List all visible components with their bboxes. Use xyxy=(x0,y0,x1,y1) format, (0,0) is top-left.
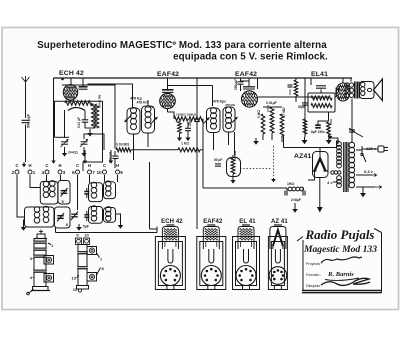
socket diagram AZ 41 inner wiring box xyxy=(271,242,284,286)
svg-text:EAF42: EAF42 xyxy=(203,219,223,225)
socket diagram EL 41 pin stubs xyxy=(242,285,244,290)
svg-text:C: C xyxy=(76,163,79,168)
speaker cone xyxy=(374,79,383,101)
ground under assembly 1 xyxy=(24,220,25,224)
osc coil box B1 xyxy=(104,182,116,199)
drawing 2 top lugs xyxy=(76,238,82,245)
antenna coil row2 loops A xyxy=(34,207,40,213)
svg-text:5 MΩ: 5 MΩ xyxy=(257,110,261,118)
IF T4 trimmer left xyxy=(204,118,210,124)
drawing 2 body xyxy=(78,245,87,286)
wire bottom chassis bus xyxy=(56,232,158,234)
socket diagram EAF42 base circle xyxy=(201,266,221,286)
socket diagram EL 41 base circle xyxy=(236,266,256,286)
wire terminal 2 down xyxy=(17,175,25,217)
capacitor EL41 input side xyxy=(335,88,337,93)
svg-text:C: C xyxy=(45,163,48,168)
socket diagram EL 41 legs xyxy=(244,249,249,263)
wire B+ rail top xyxy=(54,77,353,79)
socket diagram AZ 41 outer box xyxy=(268,237,287,290)
variable capacitor VC2 xyxy=(81,141,88,143)
socket diagram EAF42 pin stubs xyxy=(207,285,209,290)
resistor 4.7M vertical xyxy=(280,114,284,136)
svg-text:ECH 42: ECH 42 xyxy=(59,70,84,77)
resistor ECH42 bias vertical xyxy=(95,104,99,128)
svg-text:478 Kρ: 478 Kρ xyxy=(130,97,143,101)
antenna coil box row2 xyxy=(25,207,55,227)
capacitor 250pF top xyxy=(240,78,242,81)
coupling cap to EL41 xyxy=(294,80,298,96)
resistor 150ohm cathode xyxy=(303,119,307,134)
svg-text:0.01 μF: 0.01 μF xyxy=(77,117,81,128)
grid cap EAF42 first xyxy=(162,89,174,91)
trimmer capacitor row1 xyxy=(61,190,68,192)
heater 6.3v tap xyxy=(356,174,372,176)
svg-text:4.7 MΩ: 4.7 MΩ xyxy=(282,107,286,118)
osc coil B1 loops xyxy=(106,181,111,186)
antenna coil row2 loops B xyxy=(43,206,49,212)
wires detector xyxy=(263,106,282,108)
trimmer capacitor row2 xyxy=(57,215,64,217)
tube AZ41 envelope box xyxy=(313,152,329,178)
power transformer primary winding lower xyxy=(337,176,342,181)
wire ECH42 anode to rail xyxy=(70,78,72,85)
svg-text:AZ41: AZ41 xyxy=(294,153,311,160)
socket diagram ECH 42 tube envelope xyxy=(162,227,178,250)
wire AVC bus xyxy=(131,149,178,151)
svg-text:0.5M: 0.5M xyxy=(266,105,270,112)
svg-text:Dibujado :: Dibujado : xyxy=(306,284,322,288)
socket diagram EL 41 tube envelope xyxy=(238,227,254,250)
power transformer core xyxy=(343,142,345,192)
svg-text:H: H xyxy=(116,163,119,168)
svg-text:500 μμF: 500 μμF xyxy=(27,113,31,128)
svg-text:Radio Pujals: Radio Pujals xyxy=(305,227,375,242)
resistor 5M vertical xyxy=(261,114,265,134)
IF T4 secondary coil xyxy=(226,107,232,113)
band coil box A2 xyxy=(89,207,103,224)
band coil box A1 xyxy=(89,183,103,202)
tube ECH42 xyxy=(63,85,77,101)
socket diagram EL 41 inner wiring box xyxy=(236,242,257,286)
svg-text:Magestic Mod 133: Magestic Mod 133 xyxy=(303,244,377,255)
potentiometer volume xyxy=(227,158,241,177)
socket diagram ECH 42 pin stubs xyxy=(166,285,168,290)
capacitor on AVC line xyxy=(194,118,200,120)
svg-text:50ΚΩ 3W: 50ΚΩ 3W xyxy=(98,95,102,108)
drawing 1 stripe bands xyxy=(33,241,47,244)
socket diagram EAF42 legs xyxy=(209,249,214,263)
svg-text:Superheterodino MAGESTICº Mod.: Superheterodino MAGESTICº Mod. 133 para … xyxy=(37,40,327,51)
grid cap ECH42 xyxy=(79,86,88,88)
IF T4 primary coil xyxy=(211,108,217,114)
wire drop to terminal 4 xyxy=(53,78,55,158)
svg-text:4 v: 4 v xyxy=(327,180,333,185)
resistor 47 ohm xyxy=(327,122,331,135)
svg-text:47KΩ: 47KΩ xyxy=(146,105,155,109)
drawing 2 stripe bands xyxy=(77,251,88,254)
tone capacitor diagonal xyxy=(349,128,363,137)
tube EAF42 first xyxy=(160,93,176,108)
capacitor row2 assembly 2 xyxy=(84,214,89,216)
svg-text:EAF42: EAF42 xyxy=(157,71,179,78)
electrolytic 8uF 150v xyxy=(315,124,321,126)
socket diagram EL 41 outer box xyxy=(233,237,260,290)
trimmer box row2 xyxy=(55,207,71,228)
ground under pot xyxy=(232,177,234,180)
drawing 1 base flange xyxy=(33,287,49,291)
power transformer secondary winding xyxy=(349,142,355,148)
svg-text:5μF: 5μF xyxy=(83,225,89,229)
drawing 1 terminal lug upper xyxy=(44,256,54,265)
drawing 1 body xyxy=(34,239,46,287)
svg-text:H: H xyxy=(88,163,91,168)
output transformer secondary loops xyxy=(361,82,365,86)
socket diagram ECH 42 outer box xyxy=(155,237,185,290)
osc coil B2 loops xyxy=(106,207,111,212)
tube EAF42 second xyxy=(242,91,258,107)
trimmer box row1 xyxy=(58,181,70,205)
wire terminal 6 down xyxy=(77,175,79,210)
svg-text:0.01μF: 0.01μF xyxy=(266,101,277,105)
svg-text:478 K/s: 478 K/s xyxy=(137,101,149,105)
ground under electrolytics xyxy=(294,203,296,209)
svg-text:250μμF: 250μμF xyxy=(109,152,113,163)
IF T4 trimmer right xyxy=(232,117,238,123)
socket diagram ECH 42 inner wiring box xyxy=(158,242,182,286)
dial drive dashed vertical xyxy=(273,146,275,178)
resistor ECH42 cathode vertical xyxy=(92,104,96,128)
svg-text:2×8μF: 2×8μF xyxy=(291,198,301,202)
socket diagram ECH 42 legs xyxy=(168,249,173,263)
svg-text:0.01: 0.01 xyxy=(288,89,292,95)
drawing 1 terminal lug lower xyxy=(44,274,54,283)
ground arrow EL41 cathode right xyxy=(328,135,330,137)
svg-text:50 μF: 50 μF xyxy=(214,158,222,162)
band coil A1 loops xyxy=(91,182,97,188)
drawing 1 wire stub xyxy=(29,290,35,294)
wire tube to resistors xyxy=(167,109,169,112)
wire ECH42 box corner xyxy=(83,101,103,171)
svg-text:250μμF: 250μμF xyxy=(234,79,238,90)
wire drop to terminal 6 xyxy=(84,150,86,158)
resistor network box EL41 xyxy=(308,93,335,112)
ground centre tap xyxy=(356,186,375,188)
antenna coil row1 primary loops xyxy=(43,181,49,187)
wire transformer top leads xyxy=(330,138,338,144)
wire terminal 7 down xyxy=(89,175,91,183)
svg-text:2×411: 2×411 xyxy=(68,151,78,155)
tube AZ41 rectifier xyxy=(315,159,326,172)
svg-text:AZ 41: AZ 41 xyxy=(271,219,288,225)
socket diagram EAF42 inner wiring box xyxy=(200,242,223,286)
trimmer left of row2 xyxy=(71,213,78,215)
variable capacitor VC1 xyxy=(61,141,68,143)
svg-text:R. Barnis: R. Barnis xyxy=(327,271,354,278)
title block frame xyxy=(302,240,304,291)
socket diagram AZ 41 base circle xyxy=(269,267,287,285)
drawing 2 lug lower right xyxy=(87,273,97,282)
wire bottom rail detector xyxy=(203,187,287,189)
IF transformer T3 can B xyxy=(142,106,155,133)
trimmer assembly drawing 1 xyxy=(37,234,45,239)
wire T4 drops xyxy=(196,78,198,119)
wire drop to terminal 10 xyxy=(110,150,112,158)
svg-text:Formato :: Formato : xyxy=(306,273,321,277)
svg-text:47Ω: 47Ω xyxy=(329,119,333,125)
wire transformer top xyxy=(335,78,351,82)
svg-text:H: H xyxy=(28,163,31,168)
capacitor row1 assembly 2 xyxy=(84,191,89,193)
capacitor AVC 250pF xyxy=(113,155,119,157)
output transformer core xyxy=(354,82,356,99)
mixer box outline xyxy=(55,101,103,137)
socket diagram EAF42 outer box xyxy=(197,237,226,290)
svg-text:Proyecto :: Proyecto : xyxy=(306,262,322,266)
socket diagram EAF42 tube envelope xyxy=(203,227,219,250)
wire IF T3 can A bottom xyxy=(133,134,135,160)
wire EAF42-2 plate lead xyxy=(257,78,259,89)
pot wiper dashed xyxy=(240,168,272,170)
capacitor 50uF xyxy=(302,102,308,104)
drawing 2 base xyxy=(77,286,89,290)
IF T3 trimmer right xyxy=(151,117,158,124)
resistor detector vertical xyxy=(270,107,274,133)
osc coil box B2 xyxy=(104,208,116,223)
mains switch xyxy=(362,153,366,162)
IF T3 primary coil xyxy=(131,108,137,114)
wire terminal 10 down xyxy=(104,175,106,182)
wire EL41 top xyxy=(310,78,312,85)
capacitor EAF42 cathode 25uF xyxy=(185,127,191,129)
IF transformer T4 can A xyxy=(207,108,221,133)
IF transformer T4 can B xyxy=(223,107,235,132)
svg-text:10: 10 xyxy=(97,170,103,175)
svg-text:0.03 MΩ: 0.03 MΩ xyxy=(116,143,129,147)
power transformer primary winding upper xyxy=(337,142,342,147)
svg-text:25μF: 25μF xyxy=(188,119,192,126)
svg-text:10: 10 xyxy=(84,233,89,238)
svg-text:1HΩ: 1HΩ xyxy=(287,182,294,186)
IF T3 trimmer left xyxy=(125,115,132,122)
svg-text:EL41: EL41 xyxy=(311,71,328,78)
ground under assembly 2 left xyxy=(78,224,80,227)
svg-text:C: C xyxy=(103,163,106,168)
wire terminal 4 down xyxy=(46,175,48,181)
svg-text:equipada con 5 V. serie Rimloc: equipada con 5 V. serie Rimlock. xyxy=(173,52,328,63)
IF T3 secondary coil xyxy=(145,106,151,112)
svg-text:H: H xyxy=(58,163,61,168)
antenna coil row1 secondary loops xyxy=(50,181,56,187)
resistor ECH42 screen horizontal xyxy=(65,101,92,105)
wire IF T3 secondary leads xyxy=(147,100,149,106)
speaker magnet box xyxy=(360,82,375,99)
svg-text:EL 41: EL 41 xyxy=(239,219,256,225)
svg-text:ECH 42: ECH 42 xyxy=(161,219,183,225)
svg-text:8μF 150v: 8μF 150v xyxy=(311,130,325,134)
svg-text:50μF: 50μF xyxy=(298,105,305,109)
svg-text:1 KΩ: 1 KΩ xyxy=(181,142,189,146)
wires AZ41 xyxy=(308,171,315,180)
ground arrow osc into bus xyxy=(149,162,151,229)
drawing 2 lug upper right xyxy=(87,247,97,255)
wire EAF42 out to IF2 xyxy=(168,85,213,87)
socket diagram AZ 41 tube envelope xyxy=(270,227,286,250)
socket diagram AZ 41 legs xyxy=(275,249,280,263)
wire VC2 to osc xyxy=(84,134,104,150)
svg-text:EAF42: EAF42 xyxy=(235,71,257,78)
power transformer primary tap bumps xyxy=(331,171,334,174)
wire EL41 left leg xyxy=(304,78,306,135)
antenna coil box row1 xyxy=(40,181,58,204)
output transformer primary loops xyxy=(345,83,349,87)
wire ECH42 plate to IF T3 xyxy=(88,84,133,108)
ground arrow EL41 cathode left xyxy=(304,134,306,137)
socket diagram AZ 41 pin stubs xyxy=(273,285,275,290)
wire terminal 1 down xyxy=(30,175,40,188)
capacitor EL41 grid flat xyxy=(316,85,326,87)
wire terminal 9 down xyxy=(117,175,119,182)
tube EL41 xyxy=(336,83,350,101)
svg-text:C: C xyxy=(15,163,18,168)
wire antenna to terminal xyxy=(25,125,27,163)
IF transformer T3 can A xyxy=(127,108,140,134)
arrow below AZ41 B+ xyxy=(319,178,321,208)
wire B+ rail mid xyxy=(283,136,285,148)
wire grid down to tuning xyxy=(64,110,66,138)
wire cathode top bus xyxy=(318,120,329,122)
wire speaker down xyxy=(351,99,353,144)
svg-text:0.5MΩ: 0.5MΩ xyxy=(233,150,237,160)
ground under assembly 2 right xyxy=(116,214,121,222)
wire plate load box xyxy=(258,96,330,98)
wires ECH42 network xyxy=(85,127,95,129)
wires EAF42 cathode net xyxy=(173,118,175,120)
svg-text:13: 13 xyxy=(72,276,77,281)
svg-text:47KΩS: 47KΩS xyxy=(225,103,235,107)
band coil A2 loops xyxy=(91,206,97,212)
svg-text:6.3 v: 6.3 v xyxy=(364,169,374,174)
antenna xyxy=(25,86,27,118)
resistor EAF42 cathode xyxy=(178,122,182,134)
wire choke connections xyxy=(286,188,288,193)
grid cap EAF42 second xyxy=(243,86,255,88)
wire terminal 3 down xyxy=(60,175,62,181)
wire arc coupling xyxy=(68,108,85,111)
socket diagram ECH 42 base circle xyxy=(160,266,180,286)
capacitor 500pF antenna series xyxy=(22,119,30,121)
